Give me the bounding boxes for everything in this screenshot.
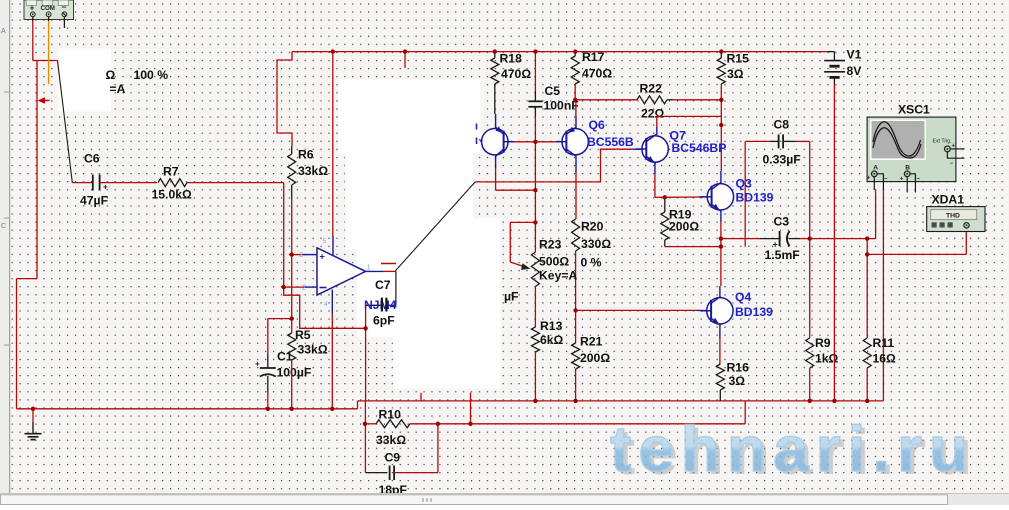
- wire Q3 emitter to Q4 collector: [720, 210, 722, 222]
- svg-text:6pF: 6pF: [373, 314, 395, 328]
- wire C3 to output: [800, 238, 876, 240]
- junction Q7 emitter R19: [663, 195, 667, 199]
- wire Q6 emitter up: [575, 100, 577, 117]
- distortion analyzer XDA1: [927, 207, 985, 232]
- junction R15 rail: [719, 49, 723, 53]
- capacitor C5: [534, 91, 536, 101]
- svg-text:Q3: Q3: [736, 176, 752, 190]
- svg-text:33kΩ: 33kΩ: [376, 433, 406, 447]
- junction Q3 emitter output: [719, 236, 723, 240]
- svg-text:XSC1: XSC1: [898, 102, 930, 116]
- svg-text:500Ω: 500Ω: [539, 255, 569, 269]
- wire op-amp out corner: [394, 270, 397, 273]
- wire R21 to ground rail: [575, 369, 577, 401]
- svg-text:R17: R17: [582, 50, 605, 64]
- junction pin2: [282, 285, 286, 289]
- op-amp output stub: [366, 270, 383, 272]
- wire output diagonal from op-amp: [395, 182, 475, 271]
- junction R9 output: [808, 236, 812, 240]
- junction base node: [533, 140, 537, 144]
- junction R13 ground: [533, 399, 537, 403]
- wire R23 wiper: [510, 221, 535, 223]
- wire pin2 feedback jog: [284, 287, 366, 328]
- oscilloscope trace 1: [873, 122, 921, 156]
- svg-text:0 %: 0 %: [581, 256, 602, 270]
- svg-text:470Ω: 470Ω: [582, 67, 612, 81]
- wire ground rail left: [17, 408, 358, 410]
- capacitor C6: [92, 175, 94, 191]
- watermark tehnari.ru: [610, 413, 979, 488]
- wire signal to Q7 base: [475, 149, 633, 182]
- wire C1 to ground rail: [267, 392, 269, 409]
- svg-text:=A: =A: [110, 82, 126, 96]
- wire pin3 stub: [292, 254, 303, 256]
- op-amp V+ pin: [332, 236, 334, 256]
- wire R13 to ground rail: [534, 352, 536, 401]
- resistor R7: [158, 179, 187, 187]
- svg-text:1.5mF: 1.5mF: [765, 248, 800, 262]
- wire R9 to ground rail: [809, 368, 811, 401]
- op-amp U1: [317, 248, 366, 295]
- wire R15 node down to Q3 collector: [720, 100, 722, 171]
- wire Q4 emitter to R16: [719, 325, 721, 339]
- svg-text:6kΩ: 6kΩ: [540, 333, 564, 347]
- svg-text:330Ω: 330Ω: [581, 237, 611, 251]
- XDA1 buttons: [932, 222, 937, 227]
- erased white patch center lower: [393, 337, 501, 389]
- wire C9 branch: [365, 472, 387, 474]
- svg-text:C3: C3: [774, 215, 790, 229]
- svg-text:BC546BP: BC546BP: [672, 141, 727, 155]
- junction R17 rail: [573, 49, 577, 53]
- wire output to R11: [866, 239, 868, 338]
- svg-text:C6: C6: [84, 152, 100, 166]
- wire input diagonal: [58, 61, 73, 183]
- wire erased branch: [470, 393, 472, 424]
- junction R21 ground: [573, 399, 577, 403]
- horizontal scrollbar: [0, 494, 1009, 506]
- junction R11 output: [865, 236, 869, 240]
- svg-text:−: −: [950, 161, 954, 167]
- wire rail to C5: [534, 52, 536, 91]
- junction op-amp V- ground: [330, 407, 334, 411]
- svg-text:NJM4: NJM4: [364, 298, 397, 312]
- wire rail stub: [404, 52, 406, 68]
- svg-text:Ext Trig.: Ext Trig.: [933, 139, 952, 145]
- wire R22 node line: [575, 99, 637, 101]
- svg-text:R5: R5: [295, 328, 311, 342]
- junction pin3: [290, 252, 294, 256]
- ext trig stubs: [950, 148, 964, 150]
- svg-text:BC556B: BC556B: [587, 135, 634, 149]
- resistor R5: [291, 319, 293, 333]
- wire C8 right leg: [795, 140, 810, 142]
- svg-text:µF: µF: [504, 290, 518, 304]
- capacitor C3: [760, 238, 780, 240]
- wire Q5 base link: [513, 141, 535, 143]
- op-amp pin 3 stub: [303, 254, 317, 256]
- svg-text:R9: R9: [815, 336, 831, 350]
- svg-text:200Ω: 200Ω: [669, 220, 699, 234]
- svg-text:200Ω: 200Ω: [580, 351, 610, 365]
- svg-text:R13: R13: [540, 319, 563, 333]
- junction R11 analyzer tap: [865, 252, 869, 256]
- wire Q5 emitter: [495, 156, 497, 168]
- svg-text:C8: C8: [774, 118, 790, 132]
- erased white patch center top: [338, 80, 481, 154]
- resistor R10: [365, 423, 376, 425]
- junction R20 R21 Q4 base: [573, 308, 577, 312]
- wire ground rail jog: [357, 401, 359, 409]
- wire C5 to base node: [534, 116, 536, 222]
- svg-text:100µF: 100µF: [277, 365, 312, 379]
- junction C9 R10: [436, 422, 440, 426]
- capacitor C7: [387, 304, 396, 306]
- transistor Q5: [495, 114, 497, 128]
- junction V1 ground: [832, 399, 836, 403]
- wire left branch down: [36, 61, 38, 279]
- wire multimeter - stub: [63, 20, 65, 28]
- svg-text:15.0kΩ: 15.0kΩ: [152, 188, 192, 202]
- junction C1 ground: [266, 407, 270, 411]
- wire Q7 collector link: [656, 116, 658, 127]
- junction R9 ground: [808, 399, 812, 403]
- svg-text:2: 2: [302, 283, 306, 292]
- svg-text:R6: R6: [298, 148, 314, 162]
- junction R22 R15: [719, 98, 723, 102]
- wire R5 top link to C1: [268, 318, 292, 320]
- wire to distortion analyzer: [867, 253, 966, 255]
- ground symbol: [32, 409, 34, 422]
- svg-text:Ω: Ω: [106, 68, 116, 82]
- svg-text:BD139: BD139: [736, 191, 774, 205]
- junction C5 rail: [533, 49, 537, 53]
- wire pin2 stub: [284, 286, 303, 288]
- svg-text:22Ω: 22Ω: [641, 107, 665, 121]
- wire V1 minus to ground rail: [833, 84, 835, 401]
- wire Q4 base line: [576, 309, 697, 311]
- junction R5 top: [290, 316, 294, 320]
- op-amp V- pin: [331, 290, 333, 314]
- svg-text:R7: R7: [163, 165, 179, 179]
- junction R17 R22: [573, 98, 577, 102]
- wire R11 to ground rail: [866, 368, 868, 401]
- capacitor C8: [770, 140, 779, 142]
- svg-text:R16: R16: [727, 360, 750, 374]
- wire scope A- down to ground rail: [882, 190, 884, 401]
- svg-text:1: 1: [367, 263, 371, 272]
- resistor R6: [291, 147, 293, 155]
- XDA1 terminal: [964, 223, 969, 228]
- battery V1: [828, 51, 834, 53]
- transistor Q7: [633, 148, 641, 150]
- resistor R16: [716, 364, 724, 390]
- oscilloscope XSC1: [867, 117, 956, 182]
- op-amp pin 2 stub: [303, 286, 317, 288]
- svg-text:C: C: [1, 223, 6, 230]
- junction Q4 collector R19: [719, 244, 723, 248]
- resistor R22: [637, 96, 667, 104]
- svg-text:33kΩ: 33kΩ: [298, 343, 328, 357]
- oscilloscope trace 2: [873, 128, 921, 158]
- resistor R15: [720, 52, 722, 58]
- svg-text:+: +: [867, 176, 871, 182]
- resistor R21: [575, 310, 577, 343]
- capacitor C9: [389, 466, 391, 481]
- svg-text:tehnari.ru: tehnari.ru: [610, 413, 975, 485]
- svg-text:0.33µF: 0.33µF: [763, 153, 801, 167]
- junction R11 ground: [865, 399, 869, 403]
- wire top supply rail: [292, 51, 828, 53]
- wire C6 to R7: [100, 182, 157, 184]
- svg-text:3Ω: 3Ω: [727, 67, 744, 81]
- svg-text:R23: R23: [539, 238, 562, 252]
- svg-text:8V: 8V: [847, 64, 863, 78]
- junction op-amp V+ rail: [331, 49, 335, 53]
- svg-text:47µF: 47µF: [80, 194, 108, 208]
- junction R5 ground: [290, 407, 294, 411]
- transistor Q5 label remnant: [476, 124, 478, 130]
- ext trig terminal: [945, 146, 951, 152]
- resistor R17: [574, 52, 576, 56]
- wire R20 to R21 junction: [575, 251, 577, 310]
- wire output node line: [721, 238, 760, 240]
- transistor Q4: [697, 309, 707, 311]
- junction rail stub: [403, 49, 407, 53]
- svg-text:16Ω: 16Ω: [873, 352, 897, 366]
- svg-text:+: +: [255, 360, 260, 369]
- svg-text:V1: V1: [847, 48, 862, 62]
- resistor R11: [863, 338, 871, 368]
- svg-text:R10: R10: [379, 407, 402, 421]
- junction R23 top: [533, 220, 537, 224]
- sheet border left: [0, 0, 9, 505]
- svg-text:C5: C5: [545, 84, 561, 98]
- svg-text:4: 4: [324, 301, 328, 308]
- svg-text:33kΩ: 33kΩ: [298, 164, 328, 178]
- multimeter terminal stubs: [32, 17, 34, 21]
- scope B pins: [906, 177, 908, 193]
- resistor R20: [572, 219, 580, 251]
- junction Q3 collector node: [719, 123, 723, 127]
- wire R23 to R13: [534, 287, 536, 328]
- junction C7 feedback: [363, 326, 367, 330]
- svg-text:470Ω: 470Ω: [501, 67, 531, 81]
- svg-text:R21: R21: [580, 334, 603, 348]
- floating red dash: [381, 263, 396, 265]
- svg-text:3: 3: [299, 250, 303, 259]
- wire C8 left leg: [744, 141, 746, 246]
- svg-text:Q6: Q6: [589, 118, 605, 132]
- current probe arrow: [43, 100, 50, 102]
- svg-text:R11: R11: [873, 336, 895, 350]
- erased white patch near multimeter: [59, 49, 112, 112]
- wire R6 to pin3 and R5: [291, 199, 293, 319]
- junction R10 left: [363, 422, 367, 426]
- wire R7 to op-amp input: [187, 182, 284, 184]
- wire scope A+ down: [875, 190, 877, 239]
- transistor Q3: [699, 196, 708, 198]
- svg-text:C7: C7: [375, 278, 391, 292]
- junction Q5 emitter node: [533, 188, 537, 192]
- wire multimeter COM orange: [48, 20, 50, 84]
- svg-text:R15: R15: [727, 52, 750, 66]
- multimeter XMM1 terminals: [24, 0, 74, 20]
- svg-text:BD139: BD139: [735, 305, 773, 319]
- svg-text:+: +: [900, 177, 904, 183]
- wire R5 to ground rail: [291, 360, 293, 409]
- svg-text:5: 5: [323, 238, 327, 245]
- svg-text:+: +: [103, 182, 108, 191]
- wire Q6 base link: [535, 141, 557, 143]
- svg-text:XDA1: XDA1: [932, 193, 965, 207]
- svg-text:Q4: Q4: [735, 290, 751, 304]
- junction ground symbol: [31, 407, 35, 411]
- wire Q3 base link: [665, 196, 699, 198]
- wire Q6 collector down to R20: [575, 156, 577, 172]
- wire op-amp V+ from rail: [332, 52, 334, 236]
- wire C9 right up to R10: [394, 472, 438, 474]
- wire rail left jog to R6: [277, 52, 292, 147]
- wire op-amp V- to ground rail: [331, 314, 333, 409]
- svg-text:Key=A: Key=A: [539, 268, 577, 282]
- wire R19 bottom link: [665, 246, 722, 248]
- junction R18 rail: [493, 49, 497, 53]
- svg-text:R18: R18: [500, 52, 523, 66]
- svg-text:R20: R20: [581, 220, 604, 234]
- wire stub above ground rail: [420, 393, 422, 401]
- wire from multimeter + terminal: [32, 20, 34, 61]
- wire Q7 emitter down: [654, 162, 656, 174]
- svg-text:100 %: 100 %: [134, 68, 169, 82]
- resistor R19: [664, 197, 666, 212]
- svg-text:A: A: [1, 28, 6, 35]
- resistor R18: [494, 52, 496, 58]
- resistor R9: [809, 239, 811, 338]
- scope A pins: [873, 177, 875, 190]
- wire ground rail right: [358, 400, 884, 402]
- junction erased branch R10: [468, 422, 472, 426]
- wire C6 input: [72, 182, 92, 184]
- svg-text:+: +: [320, 252, 325, 262]
- erased white patch center: [357, 218, 501, 337]
- svg-text:3Ω: 3Ω: [729, 374, 746, 388]
- svg-text:−: −: [884, 177, 888, 183]
- transistor Q6: [575, 116, 577, 128]
- svg-text:−: −: [916, 177, 920, 183]
- svg-text:R22: R22: [640, 82, 663, 96]
- wire base node down to R23: [534, 222, 536, 252]
- svg-text:+: +: [30, 3, 35, 13]
- svg-text:−: −: [62, 2, 67, 12]
- resistor R13: [531, 327, 539, 352]
- wire R10 loop left: [364, 401, 366, 473]
- wire R10 right: [410, 423, 745, 425]
- svg-text:COM: COM: [41, 5, 55, 12]
- potentiometer R23: [531, 252, 539, 287]
- svg-text:C9: C9: [385, 450, 401, 464]
- capacitor C1: [267, 354, 269, 368]
- wire C7 feedback down to rail: [365, 305, 367, 401]
- svg-text:THD: THD: [946, 213, 960, 220]
